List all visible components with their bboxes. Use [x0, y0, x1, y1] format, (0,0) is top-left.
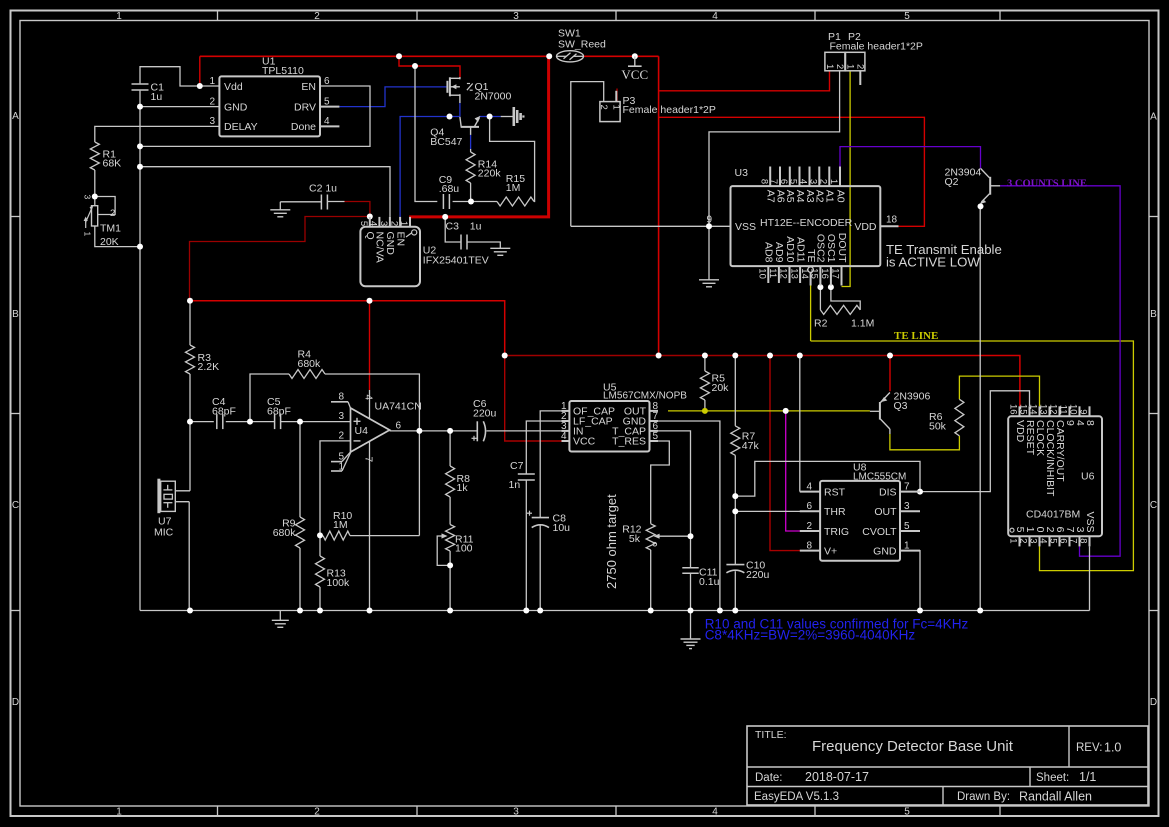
svg-text:CARRY/OUT: CARRY/OUT	[1054, 420, 1066, 482]
svg-text:VDD: VDD	[854, 221, 877, 233]
svg-text:R2: R2	[814, 318, 828, 330]
pin stub U1 DRV pin5	[320, 106, 339, 108]
wire U3 VSS pin9 line	[571, 225, 731, 227]
svg-text:20k: 20k	[712, 382, 730, 394]
pin stubs U3 top pins 8-1	[769, 167, 771, 187]
svg-text:3 COUNTS LINE: 3 COUNTS LINE	[1007, 179, 1087, 190]
svg-text:AD11: AD11	[794, 237, 806, 263]
svg-text:2: 2	[598, 105, 609, 110]
svg-text:7: 7	[1068, 538, 1079, 543]
pin stubs U8 right	[900, 491, 920, 493]
svg-text:TPL5110: TPL5110	[262, 65, 304, 77]
svg-text:16: 16	[819, 268, 830, 279]
wire yellow P2 pin1 to U3 DOUT	[842, 71, 851, 287]
wire VCC to P1 pin1	[659, 71, 830, 91]
junction dots red	[187, 298, 193, 304]
svg-text:DRV: DRV	[294, 101, 316, 113]
wire C3 to ground	[467, 242, 501, 248]
wire ground bus	[140, 610, 1090, 612]
wire Q3 base lead	[870, 410, 880, 412]
wire R11 wiper loop	[437, 536, 450, 565]
svg-text:5: 5	[1048, 538, 1059, 543]
svg-text:C2 1u: C2 1u	[309, 183, 337, 195]
resistor R15 1M	[497, 197, 534, 206]
svg-text:220k: 220k	[478, 168, 502, 180]
svg-text:5: 5	[904, 807, 910, 818]
svg-text:.68u: .68u	[439, 183, 460, 195]
svg-text:11: 11	[1058, 405, 1069, 415]
svg-text:T_RES: T_RES	[612, 436, 646, 448]
svg-text:MIC: MIC	[154, 527, 174, 539]
wire C11 bottom to bus	[690, 573, 692, 610]
wire yellow Q3 collector to R6	[890, 434, 960, 450]
svg-text:RST: RST	[824, 486, 846, 498]
pin stubs U5 left	[562, 410, 570, 412]
svg-text:DIS: DIS	[879, 486, 897, 498]
svg-text:4: 4	[368, 221, 379, 226]
svg-text:1.0: 1.0	[1104, 741, 1121, 755]
svg-text:4: 4	[798, 179, 809, 184]
svg-text:4: 4	[712, 807, 718, 818]
capacitor C6 220u	[476, 421, 478, 441]
wire C8 bottom to bus	[539, 525, 541, 611]
resistor R1 68K	[90, 142, 99, 170]
svg-text:U4: U4	[355, 425, 369, 437]
svg-text:3: 3	[209, 116, 215, 127]
wire P1 pin2 to VSS rail	[709, 71, 840, 227]
pin stubs U6 top	[1019, 406, 1021, 416]
wire blue U1 DRV to Q1 gate	[339, 87, 447, 107]
pin stubs U2	[369, 217, 371, 227]
svg-text:47k: 47k	[742, 440, 760, 452]
wire TM1 bottom to rail	[95, 226, 140, 247]
capacitor C1 1u	[132, 83, 149, 85]
op IC U6 CD4017BM box	[1008, 416, 1102, 536]
wire R9 leads	[299, 422, 301, 517]
wire C6 to U5 IN pin3	[487, 430, 562, 432]
svg-text:1: 1	[611, 105, 622, 110]
title block	[747, 726, 1148, 805]
wire dark red C2 to U2 pin5 loop	[345, 202, 370, 217]
svg-text:3: 3	[513, 807, 519, 818]
wire opamp +input chain	[190, 421, 214, 423]
svg-text:A0: A0	[834, 190, 846, 203]
wire R2 to OSC1 OSC2	[819, 287, 821, 310]
svg-text:2: 2	[314, 807, 320, 818]
resistor R2 1.1M	[820, 305, 860, 314]
svg-text:4: 4	[1038, 538, 1049, 543]
svg-text:2: 2	[388, 221, 399, 226]
svg-text:220u: 220u	[746, 569, 770, 581]
svg-text:10u: 10u	[553, 522, 571, 534]
wire R7 leads and column	[734, 356, 736, 426]
svg-text:17: 17	[830, 268, 841, 279]
svg-text:7: 7	[768, 179, 779, 184]
op IC U2 IFX25401TEV box	[360, 227, 420, 286]
svg-text:C7: C7	[510, 460, 524, 472]
wire U5 T_CAP pin6 to C11	[658, 431, 691, 568]
svg-text:1: 1	[209, 76, 215, 87]
capacitor C11 0.1u	[682, 567, 698, 569]
wire blue U2 EN to Q4 base node	[400, 117, 460, 217]
svg-text:11: 11	[767, 268, 778, 278]
junction dots ground bus	[187, 608, 193, 614]
wire C3 branch	[445, 217, 461, 242]
svg-text:3: 3	[904, 501, 910, 512]
svg-text:1: 1	[83, 232, 93, 237]
svg-text:is ACTIVE LOW: is ACTIVE LOW	[886, 255, 980, 270]
svg-text:15: 15	[1018, 404, 1029, 415]
svg-text:OSC1: OSC1	[825, 234, 837, 263]
svg-text:10: 10	[1068, 404, 1079, 415]
svg-text:AD8: AD8	[763, 242, 775, 263]
svg-text:4: 4	[712, 11, 718, 22]
pin stubs U6 bottom	[1019, 536, 1021, 546]
wire R15 loop to Q4 emitter node	[471, 201, 497, 203]
pin stub U4 pin1	[331, 470, 342, 472]
svg-text:C: C	[1150, 500, 1157, 511]
svg-text:HT12E--ENCODER: HT12E--ENCODER	[760, 217, 853, 229]
capacitor C7 1n	[518, 473, 535, 475]
svg-text:7: 7	[363, 457, 374, 463]
pin stubs U8 left	[800, 491, 820, 493]
svg-text:AD9: AD9	[773, 242, 785, 263]
svg-text:TRIG: TRIG	[824, 526, 849, 538]
svg-text:Q2: Q2	[945, 176, 959, 188]
svg-text:4: 4	[806, 481, 812, 492]
wire R6 bottom lead grey	[889, 429, 891, 434]
svg-text:12: 12	[778, 268, 789, 279]
svg-text:1.1M: 1.1M	[851, 318, 874, 330]
svg-text:220u: 220u	[473, 408, 497, 420]
svg-text:1: 1	[116, 807, 122, 818]
wire R12 wiper to C11 node	[660, 535, 691, 537]
wire C10 bottom to bus	[734, 571, 736, 610]
wire red main bus y355 left	[505, 355, 890, 357]
potentiometer TM1 20K	[92, 206, 98, 226]
svg-text:6: 6	[806, 501, 812, 512]
svg-text:680k: 680k	[273, 527, 297, 539]
svg-text:10: 10	[757, 268, 768, 279]
connector P3 Female header1*2P	[600, 102, 620, 122]
resistor R4 680k	[289, 370, 325, 379]
svg-text:VSS: VSS	[735, 221, 756, 233]
svg-text:Female header1*2P: Female header1*2P	[623, 104, 716, 116]
ground main bus left	[279, 611, 281, 621]
wire VCC riser to U1 Vdd	[199, 56, 201, 86]
resistor R14 220k	[466, 152, 475, 183]
switch SW1 SW_Reed	[557, 51, 584, 62]
wire U1 DELAY to R1	[95, 126, 220, 142]
wire R7 node loop over U8	[735, 461, 920, 496]
ground C2	[270, 209, 290, 211]
svg-text:2: 2	[806, 521, 812, 532]
ground arrow Q4 emitter	[512, 107, 515, 126]
svg-text:1M: 1M	[506, 182, 521, 194]
svg-text:7: 7	[904, 481, 910, 492]
svg-text:EN: EN	[301, 81, 316, 93]
pin stub U1 Done pin4	[320, 125, 339, 127]
svg-text:5: 5	[358, 221, 369, 226]
svg-text:C3: C3	[446, 221, 460, 233]
svg-text:VCC: VCC	[573, 436, 596, 448]
connector P1 Female header1*2P	[825, 52, 845, 71]
svg-text:2: 2	[338, 431, 344, 442]
op-amp U4 UA741CN	[351, 408, 390, 452]
svg-text:1: 1	[398, 221, 409, 226]
pin stubs U3 bottom pins 10-17	[767, 266, 769, 283]
svg-text:1: 1	[338, 461, 344, 472]
wire TM1 wiper loop	[95, 197, 115, 215]
svg-text:LMC555CM: LMC555CM	[853, 471, 906, 482]
wire U6 VSS pin8 to bus	[1089, 546, 1091, 610]
svg-text:2: 2	[855, 64, 866, 69]
resistor R8 1k	[446, 466, 455, 497]
svg-text:Done: Done	[291, 121, 316, 133]
ground U3 VSS	[699, 279, 719, 281]
svg-text:18: 18	[886, 215, 898, 226]
wire C1 top to U1 Vdd	[140, 67, 219, 86]
svg-text:1M: 1M	[333, 519, 348, 531]
svg-text:Sheet:: Sheet:	[1036, 772, 1069, 784]
wire mic bottom to bus	[188, 502, 190, 611]
wire U3 VSS ground drop	[708, 226, 710, 279]
svg-text:13: 13	[1038, 404, 1049, 415]
svg-text:8: 8	[1084, 420, 1096, 426]
svg-text:2: 2	[314, 11, 320, 22]
svg-text:6: 6	[1058, 538, 1069, 543]
svg-text:5: 5	[904, 521, 910, 532]
svg-text:2750 ohm target: 2750 ohm target	[604, 494, 619, 589]
svg-text:2: 2	[110, 208, 115, 219]
svg-text:UA741CN: UA741CN	[375, 401, 422, 413]
svg-text:2: 2	[1018, 538, 1029, 543]
wire R5 leads	[704, 356, 706, 372]
wire purple U3 A0 to Q2 collector	[840, 147, 981, 169]
resistor R3 2.2K	[186, 345, 195, 374]
svg-text:5k: 5k	[629, 533, 641, 545]
pin stub U4 pin5	[331, 461, 342, 463]
wire U8 GND pin1 to bus	[900, 551, 920, 611]
wire VCC to U3 VDD pin 18	[659, 117, 925, 226]
wire blue Q4 base lead	[470, 135, 472, 149]
pin stub U4 pin8	[331, 401, 348, 403]
svg-text:Drawn By:: Drawn By:	[957, 791, 1010, 803]
svg-text:1: 1	[1008, 538, 1019, 543]
svg-text:D: D	[1150, 697, 1157, 708]
svg-text:B: B	[1150, 309, 1157, 320]
resistor R9 680k	[296, 517, 305, 548]
capacitor C3 1u	[460, 235, 462, 250]
svg-text:TITLE:: TITLE:	[755, 729, 787, 741]
svg-text:100k: 100k	[327, 577, 351, 589]
wire red mid bus y301	[190, 301, 505, 356]
pin 18 VDD stub and number	[880, 225, 898, 227]
svg-text:NC/VA: NC/VA	[374, 232, 386, 263]
wire R12 bottom to bus	[650, 550, 652, 611]
svg-text:680k: 680k	[298, 358, 322, 370]
svg-text:68K: 68K	[103, 158, 122, 170]
wire R3 bottom to mic column	[189, 374, 191, 491]
wire C2 ground stem	[279, 202, 281, 210]
svg-text:CVOLT: CVOLT	[862, 526, 897, 538]
wire U5 pin2 to C7	[526, 421, 561, 474]
svg-text:GND: GND	[224, 101, 248, 113]
svg-text:3: 3	[378, 221, 389, 226]
svg-text:14: 14	[799, 268, 810, 279]
power VCC symbol	[634, 56, 636, 66]
op IC U3 HT12E-ENCODER box	[731, 186, 881, 266]
wire VCC top bus	[200, 55, 549, 57]
svg-text:15: 15	[809, 268, 820, 279]
wire U8 DIS to U6 RESET	[900, 391, 1030, 492]
svg-text:14: 14	[1028, 404, 1039, 415]
wire R8 column	[449, 431, 451, 466]
pin stubs U5 right	[650, 410, 659, 412]
svg-text:Q3: Q3	[894, 400, 908, 412]
svg-text:68pF: 68pF	[267, 406, 291, 418]
svg-text:13: 13	[788, 268, 799, 279]
wire red main bus y355 right	[890, 356, 1020, 407]
svg-text:EN: EN	[394, 232, 406, 247]
svg-text:8: 8	[758, 179, 769, 184]
svg-text:12: 12	[1048, 404, 1059, 415]
resistor R10 1M	[323, 531, 350, 540]
svg-text:1/1: 1/1	[1079, 770, 1096, 784]
svg-text:DOUT: DOUT	[836, 233, 848, 263]
capacitor C5 68pF	[274, 414, 276, 429]
svg-text:REV:: REV:	[1076, 742, 1102, 754]
wire U2 GND pin3 loop	[140, 167, 390, 217]
svg-text:VCC: VCC	[621, 67, 648, 82]
op IC U8 LMC555CM box	[820, 481, 900, 561]
svg-text:3: 3	[808, 179, 819, 184]
resistor R6 50k	[955, 399, 964, 436]
wire yellow R6 top to U6 CLOCK pin14	[959, 376, 1039, 406]
svg-text:EasyEDA V5.1.3: EasyEDA V5.1.3	[754, 791, 839, 803]
wire R10 leads	[320, 535, 323, 537]
wire VCC branch to Q1 drain	[399, 56, 460, 77]
resistor R5 20k	[700, 371, 709, 400]
svg-text:D: D	[12, 697, 19, 708]
svg-text:8: 8	[1078, 538, 1089, 543]
wire thick red reed to U2 pin1	[409, 56, 548, 217]
svg-text:2: 2	[834, 64, 845, 69]
svg-text:5: 5	[904, 11, 910, 22]
svg-text:16: 16	[1008, 404, 1019, 415]
svg-text:5: 5	[653, 431, 659, 442]
svg-text:B: B	[12, 309, 19, 320]
wire red U4 pin4 supply	[369, 301, 371, 390]
svg-text:GND: GND	[873, 545, 897, 557]
wire U8 RST riser	[799, 356, 801, 492]
svg-text:1u: 1u	[470, 221, 482, 233]
ground below C11	[690, 611, 692, 639]
svg-text:1: 1	[116, 11, 122, 22]
svg-text:A: A	[1150, 112, 1157, 123]
wire C2 right lead	[327, 201, 344, 203]
ground C3	[490, 247, 510, 249]
svg-text:2: 2	[209, 96, 215, 107]
wire opamp -input to R13 column	[320, 441, 351, 556]
wire U1 EN loop	[140, 86, 370, 146]
wire magenta U8 TRIG to OUT line	[786, 411, 801, 531]
wire C9 right to node	[453, 201, 471, 203]
svg-text:4: 4	[561, 431, 567, 442]
svg-text:SW_Reed: SW_Reed	[558, 39, 606, 51]
svg-text:LM567CMX/NOPB: LM567CMX/NOPB	[603, 391, 687, 402]
wire opamp output line	[390, 430, 478, 432]
opamp plus minus	[354, 420, 361, 422]
svg-text:6: 6	[778, 179, 789, 184]
wire purple 3 COUNTS LINE Q2 base to U6 pin7	[1000, 186, 1120, 556]
wire yellow U5 OUT line	[668, 410, 870, 412]
wire R11 bottom to bus	[449, 551, 451, 611]
svg-text:U3: U3	[735, 167, 749, 179]
svg-text:A: A	[12, 111, 19, 122]
svg-text:U6: U6	[1081, 471, 1095, 483]
transistor Q4 BC547	[461, 126, 479, 128]
wire yellow TE LINE	[811, 341, 1134, 571]
wire blue Q1 source drop	[459, 103, 461, 117]
svg-text:4: 4	[363, 395, 374, 401]
wire R3 top lead	[189, 301, 191, 345]
svg-text:9: 9	[1078, 409, 1089, 414]
wire R14 leads	[470, 149, 472, 152]
transistor Q2 2N3904	[989, 177, 991, 195]
resistor R7 47k	[731, 426, 740, 455]
wire red U8 V+ pin8	[770, 356, 801, 551]
svg-text:68pF: 68pF	[212, 406, 236, 418]
svg-text:9: 9	[706, 215, 712, 226]
capacitor C4 68pF	[216, 414, 218, 429]
svg-text:8: 8	[338, 392, 344, 403]
wire opamp pin4 grey part	[369, 390, 371, 419]
resistor R13 100k	[316, 556, 325, 587]
wire opamp pin7 to bus	[369, 442, 371, 611]
svg-text:6: 6	[396, 421, 402, 432]
wire R4 feedback loop	[250, 374, 289, 422]
svg-text:THR: THR	[824, 506, 846, 518]
svg-text:1: 1	[904, 540, 910, 551]
wire P3 pin2 to VSS rail	[571, 82, 604, 227]
op IC U1 TPL5110 box	[219, 76, 320, 136]
wire yellow TE pin14 drop	[810, 286, 812, 342]
wire red Q3 emitter feed	[889, 356, 891, 392]
wire blue Q4 emitter to ground arrow	[479, 116, 500, 118]
transistor Q3 2N3906	[879, 402, 881, 420]
svg-text:C8*4KHz=BW=2%=3960-4040KHz: C8*4KHz=BW=2%=3960-4040KHz	[705, 628, 916, 643]
wire U1 GND line	[140, 106, 219, 108]
svg-text:VSS: VSS	[1084, 511, 1096, 532]
wire red U5 VCC pin4	[505, 356, 562, 442]
svg-text:Vdd: Vdd	[224, 81, 243, 93]
svg-text:OUT: OUT	[874, 506, 897, 518]
svg-text:OSC2: OSC2	[815, 234, 827, 263]
op IC U5 LM567CMX/NOPB box	[569, 401, 649, 452]
svg-text:C: C	[12, 500, 19, 511]
svg-text:1n: 1n	[509, 479, 521, 491]
junction dot yellow R5 OUT	[702, 408, 708, 414]
connector P2 Female header1*2P	[846, 52, 865, 71]
wire C2 left lead	[280, 201, 321, 203]
wire left ground rail x140	[139, 91, 141, 611]
wire red-grey branch to C9 left	[415, 66, 437, 202]
svg-text:100: 100	[455, 543, 473, 555]
svg-text:2: 2	[818, 179, 829, 184]
svg-text:5: 5	[788, 179, 799, 184]
svg-text:1: 1	[824, 64, 835, 69]
